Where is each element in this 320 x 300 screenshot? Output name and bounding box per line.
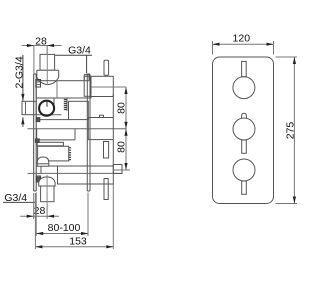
svg-text:80: 80: [116, 141, 128, 153]
body mid split line: [28, 128, 127, 130]
bracket plate: [87, 74, 90, 191]
body deck B top edge: [36, 97, 67, 99]
deck B bottom edge: [36, 119, 68, 121]
knob 2 circle: [233, 118, 255, 140]
body deck D (lower): [58, 166, 114, 184]
dim 120 extensions: [213, 41, 274, 55]
narrow bar below right block: [104, 142, 109, 159]
dim 120 dim line: [213, 43, 274, 45]
dim 120 arrows: [213, 43, 220, 46]
knob 3 stem below: [242, 181, 247, 194]
bracket boss: [84, 76, 91, 96]
deck D top-left edges: [41, 166, 58, 174]
wall fitting small mid: [35, 139, 39, 143]
bottom funnel arch: [39, 177, 55, 186]
svg-text:80-100: 80-100: [48, 222, 81, 234]
foot under circle: [36, 118, 40, 122]
teeth on cartridge right edge: [69, 148, 71, 160]
cartridge rect with teeth: [38, 146, 69, 161]
label 2-G3/4: leader line: [22, 55, 24, 127]
knob 2 nub: [242, 113, 247, 118]
line under circle: [36, 114, 61, 116]
dim 153 arrows: [35, 245, 42, 248]
knob 1 stem: [242, 61, 247, 76]
dim 80 lower arrow bottom: [124, 163, 127, 170]
dim 28 bottom dim line: [20, 215, 59, 217]
dome flange joint line: [37, 163, 49, 165]
label 2-G3/4: arrow 1: [21, 94, 24, 101]
body deck A (top cartridge): [36, 81, 91, 98]
dimension 28 top: left arrow: [27, 44, 34, 47]
bleed screw fitting on deck A: [36, 80, 41, 88]
foot block bottom right: [104, 179, 108, 200]
svg-text:80: 80: [116, 102, 128, 114]
dim 28 bottom extensions: [34, 193, 47, 219]
right side box on deck D: [113, 165, 122, 174]
pipe bottom centerline: [46, 175, 48, 204]
label G3/4 top: underline leader: [55, 54, 93, 56]
pipe centerline through funnel: [46, 46, 48, 85]
toothed cartridge section behind handle: [54, 98, 67, 111]
dim 275 arrows: [293, 57, 296, 64]
deck A internal vertical: [56, 81, 58, 98]
housing block middle: [69, 101, 89, 119]
mid-left rect below split: [37, 129, 75, 140]
trim plate: [213, 57, 274, 204]
funnel collar and bowl: [37, 70, 59, 84]
dim 275 extensions: [276, 57, 298, 204]
wall plate line (front): [34, 74, 37, 191]
centerline tick on pipe: [44, 56, 51, 58]
right face lower: [112, 94, 114, 166]
svg-text:120: 120: [233, 33, 251, 45]
dim 80 (upper): connector top: [91, 86, 126, 88]
dim 275 dim line: [293, 57, 295, 204]
right block mid: [88, 118, 113, 140]
dim 153 dim line: [35, 246, 113, 248]
label G3/4 bottom underline leader: [3, 201, 35, 203]
knob 1 circle: [233, 77, 255, 99]
handle ring circle: [39, 101, 54, 116]
block top-right of body: [91, 76, 113, 96]
dim 80 junction arrows: [124, 122, 127, 129]
dim 80 upper arrow top: [124, 87, 127, 94]
inlet pipe top: [40, 54, 55, 70]
dim 80-100 dim line: [36, 233, 88, 235]
outlet pipe bottom: [41, 186, 54, 202]
handle slot: [46, 101, 48, 107]
stem on bracket top: [84, 75, 89, 80]
svg-text:2-G3/4: 2-G3/4: [13, 56, 25, 88]
dimension 28 top: dim line: [22, 45, 62, 47]
port 1 left (G3/4): [22, 101, 36, 114]
wall fitting lower: [36, 176, 40, 182]
knob 3 circle: [233, 159, 255, 181]
dim 80-100 arrows: [36, 232, 43, 235]
svg-text:153: 153: [69, 235, 87, 247]
dimension 28 top: left extension line: [33, 46, 35, 74]
dim 80 (upper): dim line: [125, 87, 127, 170]
dimension 28 top: right arrow: [47, 44, 54, 47]
deck D mid line with left tick: [28, 172, 123, 174]
dim 28 bottom arrows: [27, 215, 34, 218]
dome flange left (port 3): [37, 157, 49, 166]
dimension 28 top: right extension (pipe centerline): [46, 46, 48, 70]
label 2-G3/4: arrow 2: [21, 117, 24, 124]
dim 80 lower connector: [113, 169, 130, 171]
label G3/4 top: vertical leader: [86, 55, 88, 73]
wall plate line (back): [33, 74, 35, 191]
knob 2 stem below: [242, 140, 247, 153]
outlet stem top-right: [104, 60, 109, 75]
dim 153 extensions: [35, 185, 113, 250]
nub on right block top: [100, 115, 104, 117]
svg-text:G3/4: G3/4: [68, 44, 91, 56]
dim 80-100 extensions: [36, 193, 88, 237]
retaining bar: [37, 142, 63, 146]
